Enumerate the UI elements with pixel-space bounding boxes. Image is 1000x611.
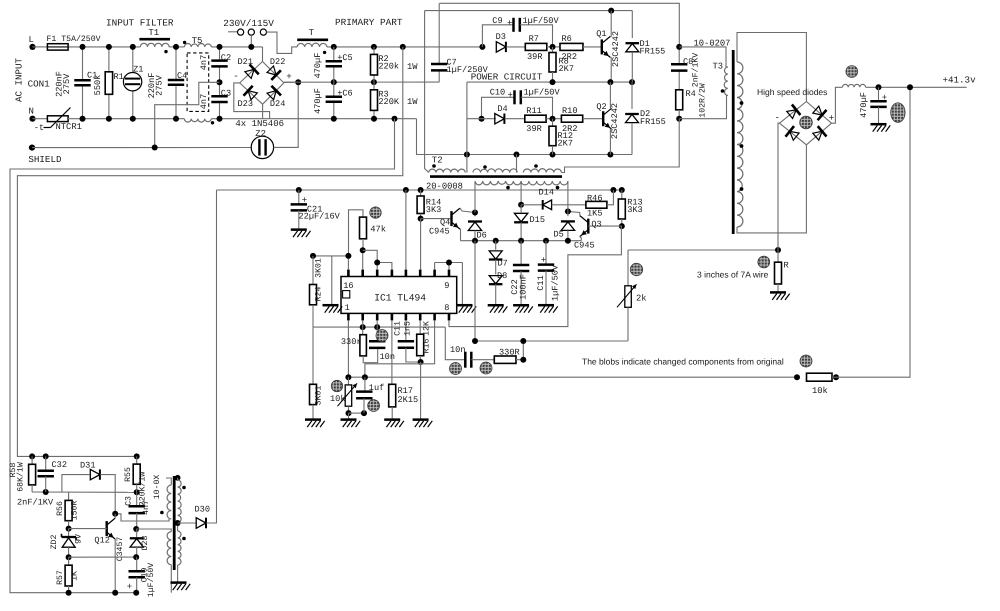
- svg-text:2nF/1KV: 2nF/1KV: [692, 53, 701, 87]
- svg-text:C945: C945: [429, 226, 450, 236]
- svg-text:R55: R55: [124, 467, 133, 482]
- svg-text:3K01: 3K01: [314, 386, 323, 406]
- svg-text:C945: C945: [574, 240, 595, 250]
- resistor R17 2K15: [389, 384, 418, 419]
- resistor R11 39R: [525, 106, 562, 134]
- terminal SHIELD: [28, 145, 62, 166]
- varistor Z1: [123, 44, 143, 122]
- wire bridge minus loop: [234, 83, 270, 119]
- ground right of IC: [457, 305, 477, 313]
- wire driver emitter rail: [461, 238, 582, 244]
- svg-text:275V: 275V: [62, 73, 72, 94]
- svg-text:T1: T1: [148, 28, 159, 38]
- blob at output cap: [891, 103, 905, 123]
- output choke: [842, 84, 865, 87]
- svg-text:+: +: [127, 582, 132, 592]
- wire pin8 to error amp input: [449, 226, 621, 327]
- svg-text:D28: D28: [141, 536, 150, 551]
- svg-text:D5: D5: [554, 229, 564, 239]
- IC pin stubs: [348, 270, 449, 321]
- ground at R16: [413, 420, 433, 428]
- annotation blobs note: [582, 357, 784, 367]
- transformer T2 20-0008 primary: [426, 155, 562, 191]
- svg-text:+: +: [829, 112, 835, 123]
- svg-text:T2: T2: [432, 155, 443, 165]
- diode D14: [521, 188, 586, 210]
- ground at C22: [513, 305, 533, 313]
- svg-text:T5: T5: [192, 36, 203, 46]
- svg-text:10-0X: 10-0X: [153, 475, 162, 500]
- wire T2 sec left end down: [474, 181, 476, 213]
- svg-text:D21: D21: [238, 57, 253, 67]
- svg-text:R46: R46: [587, 193, 602, 203]
- svg-text:C4: C4: [177, 71, 187, 81]
- svg-text:+41.3v: +41.3v: [943, 74, 977, 85]
- svg-text:D6: D6: [477, 230, 487, 240]
- svg-text:102R/2W: 102R/2W: [699, 83, 708, 117]
- svg-text:10k: 10k: [330, 394, 345, 404]
- svg-text:12K: 12K: [422, 321, 431, 336]
- svg-text:D15: D15: [530, 215, 545, 225]
- diode D30: [175, 190, 217, 528]
- label AC INPUT: [14, 57, 25, 102]
- svg-text:R56: R56: [56, 501, 65, 516]
- ground at D8: [488, 305, 508, 313]
- wire pin1 feedback drop: [347, 320, 349, 377]
- wire mid-rail drop to T2 tap: [466, 82, 468, 166]
- capacitor C5 470uF: [313, 47, 353, 82]
- resistor R4 102R/2W: [676, 83, 708, 121]
- connector CON1: [28, 78, 51, 89]
- wire N line: [68, 118, 416, 120]
- svg-text:8: 8: [444, 303, 449, 313]
- resistor R46 1K5: [586, 190, 614, 218]
- svg-text:D7: D7: [498, 258, 508, 268]
- svg-text:9V: 9V: [75, 534, 84, 544]
- svg-text:D22: D22: [270, 57, 285, 67]
- svg-text:1W: 1W: [407, 97, 418, 107]
- wire Q2 base row: [467, 118, 496, 120]
- svg-text:R16: R16: [422, 339, 431, 354]
- svg-text:C3: C3: [125, 496, 134, 506]
- svg-text:1µF/50V: 1µF/50V: [524, 88, 561, 98]
- svg-text:3K3: 3K3: [627, 205, 642, 215]
- ground left of IC: [323, 305, 343, 313]
- svg-text:230V/115V: 230V/115V: [223, 18, 274, 29]
- svg-text:IC1 TL494: IC1 TL494: [374, 293, 426, 304]
- capacitor C11 1uF/50V: [536, 241, 561, 305]
- resistor 10k feedback: [794, 87, 910, 396]
- wire standby divider bus: [32, 489, 140, 495]
- svg-text:330r: 330r: [341, 337, 362, 347]
- capacitor C6 470uF: [313, 82, 353, 122]
- svg-text:39R: 39R: [527, 52, 542, 62]
- wire standby emitter rail: [66, 590, 119, 596]
- svg-text:D3: D3: [496, 32, 506, 42]
- wire +DC top rail: [327, 44, 486, 50]
- blob left of 10n: [450, 363, 462, 375]
- ground at output cap: [871, 124, 891, 132]
- common-mode choke T5: [184, 36, 214, 125]
- svg-text:1n5: 1n5: [404, 321, 413, 336]
- svg-text:R6: R6: [562, 34, 572, 44]
- svg-text:R4: R4: [686, 89, 696, 99]
- wire bridge bottom to N rail: [262, 104, 264, 119]
- svg-text:+: +: [508, 91, 513, 101]
- wire pins2-3 bus: [313, 324, 445, 330]
- svg-text:16: 16: [343, 281, 353, 291]
- transistor Q3 C945: [568, 211, 622, 250]
- blob at 1uf: [368, 400, 380, 412]
- wire pin15/pin14 top: [360, 247, 392, 269]
- switch 230V/115V: [223, 18, 274, 50]
- wire Q12 collector to T primary: [112, 511, 169, 521]
- ground at R17: [384, 420, 404, 428]
- wire bridge plus to choke: [832, 87, 843, 123]
- capacitor C2 4n7: [199, 44, 231, 82]
- svg-text:4n7: 4n7: [199, 55, 209, 70]
- svg-text:F1 T5A/250V: F1 T5A/250V: [47, 35, 101, 44]
- svg-text:+C6: +C6: [337, 88, 352, 98]
- svg-text:220k: 220k: [378, 61, 399, 71]
- svg-text:D14: D14: [539, 188, 554, 198]
- svg-text:SHIELD: SHIELD: [28, 154, 62, 165]
- svg-text:4n7: 4n7: [142, 500, 151, 515]
- output bridge High speed diodes: [757, 87, 834, 145]
- svg-text:330R: 330R: [499, 348, 520, 358]
- section title POWER CIRCUIT: [471, 71, 543, 82]
- wire bridge minus down: [778, 123, 780, 250]
- svg-text:R24: R24: [314, 287, 323, 302]
- svg-text:10n: 10n: [450, 345, 465, 355]
- svg-text:3 inches of 7A wire: 3 inches of 7A wire: [697, 269, 769, 279]
- svg-text:47k: 47k: [370, 225, 386, 235]
- resistor R58 68K/1W: [9, 453, 36, 492]
- wire T2 primary feed: [425, 11, 429, 173]
- svg-text:9: 9: [444, 281, 449, 291]
- trimmer 2k: [617, 250, 647, 341]
- wire pin2 stub: [362, 320, 364, 327]
- capacitor C19 1uF/50V: [127, 557, 156, 597]
- blob right of 10n: [480, 362, 492, 374]
- ground at R15: [305, 420, 325, 428]
- svg-text:550k: 550k: [93, 75, 103, 96]
- diode D3: [496, 32, 526, 52]
- svg-text:T: T: [309, 28, 315, 38]
- resistor R10 2R2: [561, 106, 603, 134]
- wire pin4 to R17: [391, 320, 393, 384]
- transformer T3 secondary: [737, 33, 806, 233]
- diode D15: [514, 205, 545, 241]
- resistor R13 3K3: [618, 190, 642, 229]
- svg-text:+: +: [507, 18, 512, 28]
- svg-text:C11: C11: [394, 321, 403, 336]
- svg-text:3K01: 3K01: [314, 258, 323, 278]
- svg-text:2k: 2k: [636, 293, 647, 303]
- wire feedback line: [345, 374, 797, 380]
- wire R14 bottom to Q4 base and IC pin6: [421, 219, 452, 270]
- wire compensation net: [472, 241, 628, 344]
- wire switch to doubler tap: [267, 32, 298, 53]
- wire L line: [33, 46, 263, 48]
- svg-text:1µF/50V: 1µF/50V: [523, 16, 560, 26]
- wire +41.3v rail: [866, 74, 976, 90]
- svg-text:R7: R7: [529, 34, 539, 44]
- svg-text:ZD2: ZD2: [50, 535, 59, 550]
- diode D5: [554, 208, 575, 240]
- capacitor C1 220nF/275V: [55, 44, 98, 122]
- diode D7: [489, 241, 508, 275]
- wire pin16 node to R24: [310, 253, 351, 270]
- ground at 10k trimmer: [341, 420, 361, 428]
- svg-text:-: -: [233, 71, 239, 82]
- resistor R7 39R: [525, 34, 560, 62]
- svg-text:C3: C3: [221, 88, 231, 98]
- resistor R8 2K7: [549, 47, 574, 82]
- svg-text:+: +: [882, 93, 887, 103]
- wire pin3 stub: [376, 320, 378, 327]
- blob at 7A wire: [758, 256, 770, 268]
- wire Vcc rail: [217, 187, 625, 193]
- diode D28: [130, 526, 150, 560]
- wire zener bus: [69, 556, 137, 558]
- svg-text:R10: R10: [562, 106, 577, 116]
- svg-text:Q2: Q2: [596, 102, 606, 112]
- resistor R57 1K: [56, 557, 80, 593]
- svg-text:Q3: Q3: [591, 220, 601, 230]
- blob at note: [800, 355, 812, 367]
- svg-text:L: L: [29, 35, 34, 45]
- svg-text:1: 1: [345, 303, 350, 313]
- svg-text:AC INPUT: AC INPUT: [14, 57, 25, 102]
- resistor R3 220K 1W: [371, 82, 419, 122]
- diode D31: [62, 460, 115, 513]
- resistor R1 550k: [93, 44, 124, 122]
- svg-text:NTCR1: NTCR1: [56, 122, 82, 132]
- svg-text:FR155: FR155: [640, 47, 666, 57]
- svg-text:D24: D24: [270, 99, 285, 109]
- svg-text:Z2: Z2: [255, 129, 266, 139]
- wire 0V loop to standby: [10, 119, 395, 593]
- capacitor 470uF output: [859, 87, 887, 123]
- svg-text:220K: 220K: [378, 97, 399, 107]
- svg-text:High speed diodes: High speed diodes: [757, 87, 827, 97]
- svg-text:C10: C10: [490, 88, 505, 98]
- svg-text:R11: R11: [526, 106, 541, 116]
- IC U1 TL494: [341, 277, 457, 314]
- ground at C11: [538, 305, 558, 313]
- fuse F1 T5A/250V: [47, 35, 101, 50]
- transformer T4 core: [173, 476, 176, 570]
- transformer T4 10-0X primary: [136, 475, 171, 593]
- wire +DC loop to standby: [17, 47, 402, 457]
- svg-text:2K7: 2K7: [559, 64, 574, 74]
- svg-text:R57: R57: [56, 570, 65, 585]
- blob at 10n: [376, 330, 388, 342]
- svg-text:+C5: +C5: [337, 53, 352, 63]
- resistor R2 220k 1W: [371, 47, 419, 82]
- transformer T4 secondary: [175, 475, 186, 582]
- wire pin10/pin9 to ground: [435, 260, 463, 305]
- blob at choke: [846, 66, 858, 78]
- svg-text:4n7: 4n7: [199, 94, 209, 109]
- trimmer 10k: [330, 377, 367, 419]
- svg-text:PRIMARY PART: PRIMARY PART: [335, 17, 403, 28]
- resistor R14 3K3: [417, 190, 441, 222]
- suppressor Z2: [251, 129, 273, 158]
- label 10-0207: [694, 39, 731, 49]
- svg-text:100nF: 100nF: [519, 274, 529, 300]
- wire second bus (switch node): [425, 8, 633, 14]
- capacitor C10 1uF/50V: [479, 88, 561, 122]
- bridge rectifier D21-D24 4x 1N5406: [233, 57, 292, 129]
- wire 0V rail elbow to power-circuit return: [417, 119, 633, 158]
- svg-text:1K5: 1K5: [587, 208, 602, 218]
- resistor R6 2R2: [560, 34, 602, 62]
- wire T2 primary taps: [467, 119, 679, 173]
- wire DC mid rail: [284, 79, 439, 85]
- svg-text:+: +: [286, 71, 292, 82]
- svg-text:Q1: Q1: [596, 29, 606, 39]
- terminal N: [29, 107, 36, 122]
- resistor 47k: [349, 210, 387, 256]
- svg-text:1uf: 1uf: [369, 383, 384, 393]
- svg-text:10k: 10k: [812, 386, 828, 396]
- svg-text:-: -: [775, 112, 781, 123]
- svg-text:+: +: [541, 256, 546, 266]
- wire left IC ground drop: [331, 256, 333, 305]
- wire pin5 DTC left jog: [365, 320, 435, 377]
- wire T2 sec center tap down: [518, 181, 524, 208]
- transformer T3 10-0207 primary: [679, 47, 728, 96]
- svg-text:D4: D4: [497, 104, 507, 114]
- ground at T4 secondary: [171, 583, 191, 591]
- resistor R56 150R: [56, 492, 80, 532]
- blob at 47k: [370, 207, 381, 218]
- svg-text:470µF: 470µF: [859, 92, 869, 118]
- svg-text:The blobs indicate changed com: The blobs indicate changed components fr…: [582, 357, 784, 367]
- resistor R24 3K01: [310, 256, 324, 327]
- transformer T3 core: [732, 50, 735, 234]
- wire bridge top feed: [262, 47, 264, 62]
- svg-text:2nF/1KV: 2nF/1KV: [17, 497, 54, 507]
- svg-text:CON1: CON1: [28, 78, 51, 89]
- diode D6: [468, 210, 487, 241]
- capacitor C3 4n7 standby: [125, 492, 152, 529]
- resistor 330R: [494, 341, 526, 363]
- svg-text:Q12: Q12: [94, 536, 109, 546]
- capacitor 10n (pins 2-3): [369, 327, 395, 362]
- wire power-circuit mid rail: [467, 79, 635, 85]
- capacitor 1uf: [356, 377, 384, 413]
- wire Z2 right to DC mid rail: [274, 82, 299, 147]
- transformer T2 secondary: [475, 181, 568, 189]
- diode D8: [489, 271, 507, 304]
- svg-text:C11: C11: [536, 275, 546, 290]
- svg-text:470µF: 470µF: [313, 88, 323, 114]
- diode D4: [495, 104, 525, 124]
- svg-text:C9: C9: [492, 16, 502, 26]
- svg-text:R: R: [784, 261, 789, 271]
- svg-text:D30: D30: [195, 504, 210, 514]
- transistor Q2 2SC4242: [596, 82, 619, 154]
- thermistor NTCR1: [33, 108, 82, 133]
- diode D1 FR155: [626, 11, 666, 83]
- capacitor C32 2nF/1KV: [17, 453, 67, 507]
- capacitor C13 1n5: [394, 320, 421, 362]
- resistor R12 2K7: [549, 119, 573, 155]
- wire top bus: [440, 3, 680, 47]
- svg-text:2SC4242: 2SC4242: [610, 103, 620, 139]
- capacitor C3 4n7: [199, 79, 231, 121]
- svg-text:D8: D8: [497, 271, 507, 281]
- capacitor C9 1uF/50V: [482, 16, 559, 47]
- section title INPUT FILTER: [106, 18, 174, 29]
- svg-text:Z1: Z1: [133, 65, 143, 75]
- wire C2/C3 midpoint to shield: [155, 82, 220, 147]
- svg-text:150R: 150R: [71, 501, 80, 521]
- capacitor C4 220nF/275V: [147, 44, 187, 122]
- capacitor C22 100nF: [510, 241, 529, 305]
- svg-text:470µF: 470µF: [313, 53, 323, 79]
- svg-text:2K15: 2K15: [398, 395, 419, 405]
- wire T2 sec right end down: [567, 181, 569, 211]
- svg-text:N: N: [29, 107, 34, 117]
- svg-text:1W: 1W: [407, 62, 418, 72]
- blob at 10k: [331, 380, 342, 391]
- svg-text:1µF/50V: 1µF/50V: [147, 563, 156, 597]
- svg-text:2K7: 2K7: [558, 139, 573, 149]
- svg-text:4x 1N5406: 4x 1N5406: [235, 119, 284, 129]
- svg-text:3K3: 3K3: [426, 205, 441, 215]
- inductor T1: [139, 28, 186, 53]
- svg-text:FR155: FR155: [640, 117, 666, 127]
- blob at 2k: [630, 263, 642, 275]
- svg-text:C32: C32: [52, 460, 67, 470]
- svg-text:-t: -t: [34, 123, 44, 133]
- svg-text:22µF/16V: 22µF/16V: [299, 212, 341, 222]
- svg-text:275V: 275V: [155, 74, 165, 95]
- resistor R16 12K: [417, 320, 432, 419]
- svg-text:D31: D31: [80, 460, 95, 470]
- resistor R55 220K/1W: [124, 453, 148, 506]
- terminal L: [29, 35, 36, 50]
- ground at R: [770, 292, 790, 300]
- inductor T: [297, 28, 328, 54]
- capacitor C7 1uF/250V: [431, 3, 489, 82]
- capacitor C8 2nF/1KV: [671, 44, 701, 90]
- svg-text:D23: D23: [238, 99, 253, 109]
- blob in output bridge: [800, 116, 813, 129]
- transistor Q1 2SC4242: [596, 11, 621, 83]
- diode D2 FR155: [625, 82, 666, 154]
- wire T3 primary return: [679, 96, 726, 119]
- svg-text:1µF/50V: 1µF/50V: [551, 264, 561, 301]
- zener ZD2 9V: [50, 529, 84, 561]
- svg-text:68K/1W: 68K/1W: [17, 462, 26, 492]
- resistor R: [775, 250, 789, 292]
- svg-text:INPUT FILTER: INPUT FILTER: [106, 18, 174, 29]
- svg-text:R1: R1: [114, 72, 124, 82]
- resistor R15 3K01: [310, 327, 324, 419]
- transistor Q12 C3457: [69, 514, 125, 593]
- wire Vcc to pin12: [405, 190, 407, 270]
- wire bridge plus to mid rail: [284, 79, 301, 85]
- capacitor C21 22uF/16V: [291, 190, 341, 237]
- svg-text:C2: C2: [221, 53, 231, 63]
- resistor 330r: [341, 327, 378, 363]
- svg-text:2SC4242: 2SC4242: [611, 31, 621, 67]
